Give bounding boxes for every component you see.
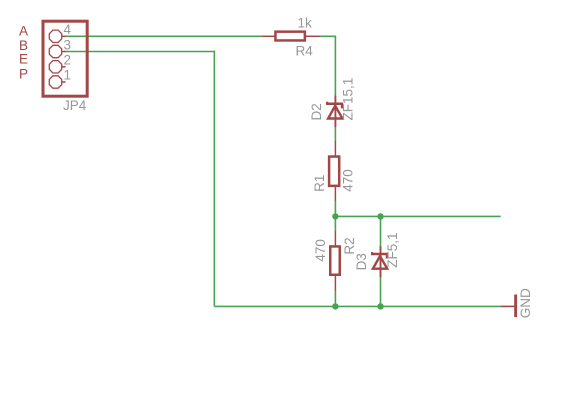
svg-text:ZF15,1: ZF15,1 xyxy=(341,78,356,121)
svg-text:1k: 1k xyxy=(298,15,313,30)
resistor R1 xyxy=(329,141,339,201)
label D3 xyxy=(354,253,369,270)
wire R2 to bottom junction xyxy=(334,290,336,306)
pin name E xyxy=(19,52,28,67)
wire D2 to R1 xyxy=(334,127,336,142)
value ZF15,1 xyxy=(341,78,356,121)
label D2 xyxy=(309,103,324,120)
svg-text:2: 2 xyxy=(64,52,72,67)
svg-text:ZF5,1: ZF5,1 xyxy=(385,233,400,268)
wire middle node to the right xyxy=(335,215,500,217)
pin name P xyxy=(19,67,28,82)
pin number 1 xyxy=(64,67,72,82)
svg-text:3: 3 xyxy=(64,37,72,52)
label R2 xyxy=(342,237,357,254)
junction dot bottom left xyxy=(332,303,338,309)
junction dot middle right xyxy=(377,213,383,219)
svg-text:JP4: JP4 xyxy=(63,98,87,113)
junction dot bottom right xyxy=(377,303,383,309)
connector JP4 body xyxy=(43,21,87,96)
pin name B xyxy=(19,38,28,53)
svg-text:P: P xyxy=(19,67,28,82)
value 470 of R1 xyxy=(341,169,356,192)
wire junction to R2 xyxy=(334,216,336,231)
wire R1 to junction node xyxy=(334,201,336,217)
label R4 xyxy=(296,44,314,59)
pin name A xyxy=(19,24,28,39)
label GND xyxy=(518,288,533,318)
ground GND symbol xyxy=(500,295,515,318)
svg-text:470: 470 xyxy=(313,239,328,262)
pin number 2 xyxy=(64,52,72,67)
pin number 3 xyxy=(64,37,72,52)
wire R4 to corner and down to D2 xyxy=(320,36,335,96)
svg-text:470: 470 xyxy=(341,169,356,192)
resistor R2 xyxy=(330,231,340,291)
svg-text:A: A xyxy=(19,24,28,39)
svg-text:D3: D3 xyxy=(354,253,369,270)
wire middle node down to D3 xyxy=(380,216,382,246)
svg-text:GND: GND xyxy=(518,288,533,318)
svg-text:R4: R4 xyxy=(296,44,314,59)
label JP4 xyxy=(63,98,87,113)
zener diode D2 xyxy=(326,96,343,127)
svg-text:4: 4 xyxy=(64,22,72,37)
svg-text:D2: D2 xyxy=(309,103,324,120)
value ZF5,1 xyxy=(385,233,400,268)
junction dot middle left xyxy=(332,213,338,219)
svg-text:R1: R1 xyxy=(312,175,327,192)
resistor R4 xyxy=(262,32,321,41)
wire left vertical rail down xyxy=(213,51,215,307)
wire D3 to bottom junction xyxy=(380,277,382,306)
svg-text:1: 1 xyxy=(64,67,72,82)
wire bottom horizontal to GND xyxy=(214,305,500,307)
wire pin 3 of JP4 to left vertical rail xyxy=(64,51,215,53)
value 1k xyxy=(298,15,313,30)
label R1 xyxy=(312,175,327,192)
wire pin 4 of JP4 to R4 xyxy=(64,35,261,37)
value 470 of R2 xyxy=(313,239,328,262)
svg-text:E: E xyxy=(19,52,28,67)
zener diode D3 xyxy=(371,246,388,277)
pin number 4 xyxy=(64,22,72,37)
svg-text:R2: R2 xyxy=(342,237,357,254)
